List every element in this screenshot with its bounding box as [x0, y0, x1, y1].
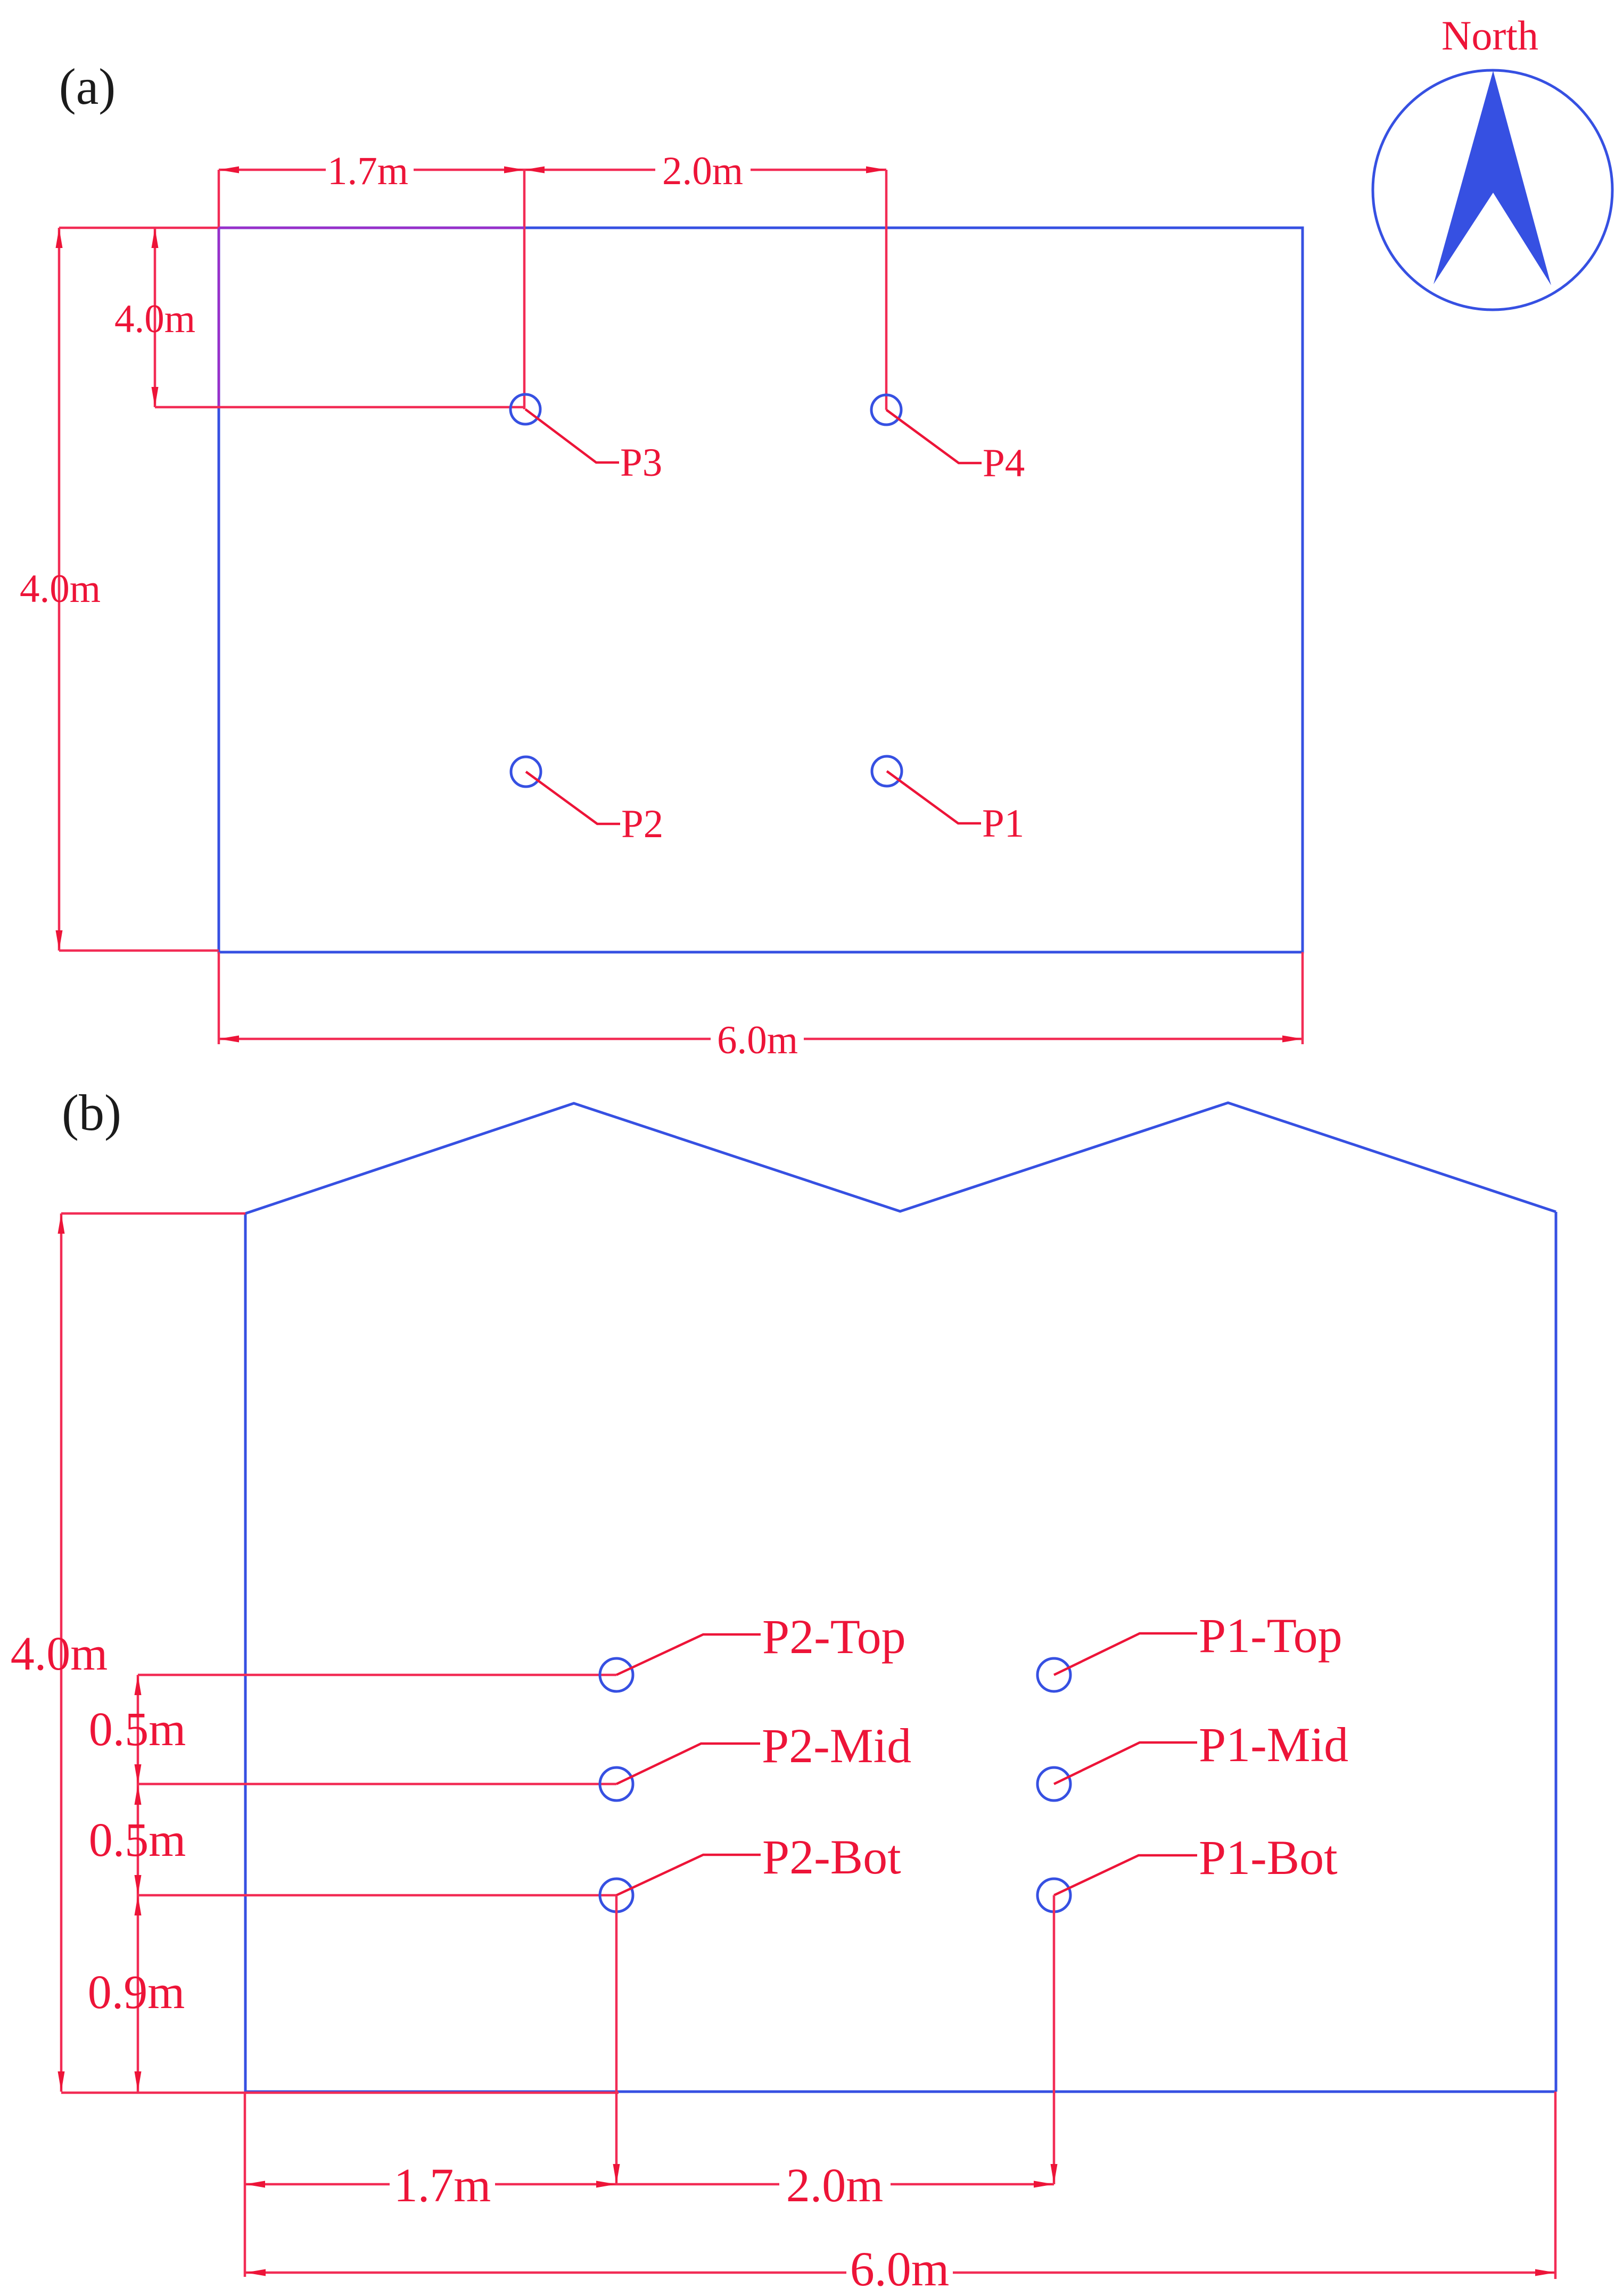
outer 4.0m dim vertical (b) — [60, 1213, 63, 2092]
svg-text:P2-Mid: P2-Mid — [762, 1719, 911, 1773]
arrow inner 4.0m top — [152, 228, 159, 248]
arrow 1.7m left (b) — [245, 2181, 265, 2188]
svg-text:P2-Bot: P2-Bot — [762, 1830, 901, 1884]
arrow 2.0m right (b) — [1034, 2181, 1054, 2188]
svg-text:P2: P2 — [621, 802, 663, 846]
dim line 1.7m right segment — [414, 169, 524, 171]
svg-text:P1-Mid: P1-Mid — [1199, 1717, 1348, 1772]
extension line y=428 left of room — [59, 227, 219, 229]
compass needle — [1433, 71, 1551, 285]
leader P4 — [886, 410, 982, 463]
arrow chain mid1 down — [135, 1764, 142, 1785]
compass circle — [1373, 70, 1612, 310]
horizontal line y=765 to P3 — [155, 406, 525, 409]
drop line P2-Bot — [615, 1895, 618, 2184]
arrow 2.0m left — [524, 167, 545, 174]
arrow 6.0m left (a) — [219, 1036, 239, 1043]
arrow drop P2 end — [613, 2164, 620, 2184]
svg-text:(b): (b) — [62, 1084, 121, 1141]
inner chained dim vertical (b) — [137, 1675, 139, 2092]
arrow 2.0m right — [866, 167, 886, 174]
P1-Top circle — [1037, 1658, 1070, 1691]
leader P2-Bot — [616, 1855, 761, 1895]
leader P2-Top — [616, 1634, 761, 1675]
level line Mid — [138, 1783, 616, 1786]
P2-Top circle — [600, 1658, 633, 1691]
arrow drop P1 end — [1051, 2164, 1058, 2184]
svg-text:6.0m: 6.0m — [717, 1018, 798, 1062]
P2-Mid circle — [600, 1768, 633, 1801]
arrow 6.0m right (b) — [1535, 2269, 1555, 2276]
svg-text:0.5m: 0.5m — [89, 1814, 186, 1866]
arrow 4.0m bottom (b) — [58, 2071, 65, 2092]
point P2 circle — [511, 757, 541, 787]
left wall (b) — [244, 1213, 247, 2092]
dim line 6.0m right segment (a) — [804, 1038, 1303, 1040]
roof outline (b) — [245, 1103, 1556, 1213]
arrow outer 4.0m top (a) — [56, 228, 63, 248]
dim line 2.0m right segment — [751, 169, 886, 171]
P2-Bot circle — [600, 1879, 633, 1912]
extension line x=1665 to P4 — [885, 170, 888, 410]
overlap red+blue top edge (purple) — [219, 227, 524, 229]
extension y=2280 (b) — [61, 1212, 245, 1215]
leader P1-Mid — [1054, 1742, 1197, 1784]
floor line (b) — [245, 2091, 1556, 2093]
level line Top — [138, 1674, 616, 1676]
svg-text:North: North — [1441, 12, 1538, 59]
point P4 circle — [871, 395, 901, 425]
svg-text:P2-Top: P2-Top — [762, 1609, 906, 1664]
arrow chain mid1 up — [135, 1785, 142, 1805]
arrow 1.7m right (b) — [596, 2181, 616, 2188]
extension along floor (b) — [61, 2092, 619, 2094]
svg-text:(a): (a) — [59, 58, 116, 115]
drop line P1-Bot — [1053, 1895, 1056, 2184]
point P1 circle — [872, 756, 902, 786]
arrow 6.0m left (b) — [245, 2269, 266, 2276]
extension x=2922 (b) — [1554, 2092, 1557, 2279]
dim 6.0m left segment (b) — [245, 2272, 846, 2274]
svg-text:P1-Top: P1-Top — [1199, 1608, 1342, 1663]
svg-text:6.0m: 6.0m — [850, 2242, 950, 2296]
dim 2.0m left segment (b) — [616, 2183, 779, 2186]
svg-text:0.9m: 0.9m — [88, 1966, 185, 2019]
arrow inner 4.0m bottom — [152, 387, 159, 407]
arrow 6.0m right (a) — [1282, 1036, 1303, 1043]
svg-text:2.0m: 2.0m — [786, 2159, 884, 2212]
leader P1-Top — [1054, 1633, 1197, 1675]
point P3 circle — [510, 394, 540, 424]
dim line 1.7m left segment — [219, 169, 326, 171]
arrow chain bottom — [135, 2071, 142, 2092]
svg-text:P4: P4 — [983, 441, 1025, 485]
leader P1 — [887, 771, 981, 823]
svg-text:4.0m: 4.0m — [114, 297, 195, 341]
overlap red+blue left edge (purple) — [218, 228, 220, 407]
dim 1.7m left segment (b) — [245, 2183, 390, 2186]
svg-text:0.5m: 0.5m — [89, 1703, 186, 1756]
P1-Mid circle — [1037, 1768, 1070, 1801]
arrow chain mid2 down — [135, 1875, 142, 1895]
svg-text:P1: P1 — [982, 802, 1024, 846]
svg-text:P1-Bot: P1-Bot — [1199, 1830, 1338, 1885]
arrow 4.0m top (b) — [58, 1213, 65, 1234]
P1-Bot circle — [1037, 1879, 1070, 1912]
arrow chain top — [135, 1675, 142, 1695]
outer 4.0m dim vertical (a) — [58, 228, 61, 951]
room plan outline (a) — [219, 228, 1303, 952]
inner 4.0m dim vertical (a) — [154, 228, 156, 407]
svg-text:P3: P3 — [620, 441, 662, 485]
arrow 1.7m right — [504, 167, 524, 174]
svg-text:4.0m: 4.0m — [11, 1628, 108, 1680]
dim 6.0m right segment (b) — [953, 2272, 1555, 2274]
svg-text:2.0m: 2.0m — [662, 149, 743, 193]
svg-text:1.7m: 1.7m — [327, 149, 408, 193]
dim line 6.0m left segment (a) — [219, 1038, 711, 1040]
svg-text:4.0m: 4.0m — [20, 567, 101, 611]
dim 1.7m right segment (b) — [495, 2183, 616, 2186]
extension line y=1786 bottom left — [59, 949, 219, 952]
arrow 1.7m left — [219, 167, 239, 174]
dim line 2.0m left segment — [524, 169, 655, 171]
extension 6.0m left (a) — [218, 952, 220, 1044]
leader P3 — [525, 409, 619, 462]
arrow chain mid2 up — [135, 1895, 142, 1915]
arrow outer 4.0m bottom (a) — [56, 930, 63, 951]
leader P2 — [526, 772, 620, 824]
leader P2-Mid — [616, 1744, 760, 1784]
extension line x=985 to P3 — [523, 170, 526, 409]
extension line x=411 above room — [218, 170, 220, 229]
extension 6.0m right (a) — [1301, 952, 1304, 1044]
svg-text:1.7m: 1.7m — [394, 2159, 491, 2212]
level line Bot — [138, 1894, 616, 1897]
right wall (b) — [1555, 1212, 1558, 2092]
dim 2.0m right segment (b) — [891, 2183, 1054, 2186]
leader P1-Bot — [1054, 1855, 1197, 1895]
extension x=460 (b) — [244, 2092, 246, 2277]
